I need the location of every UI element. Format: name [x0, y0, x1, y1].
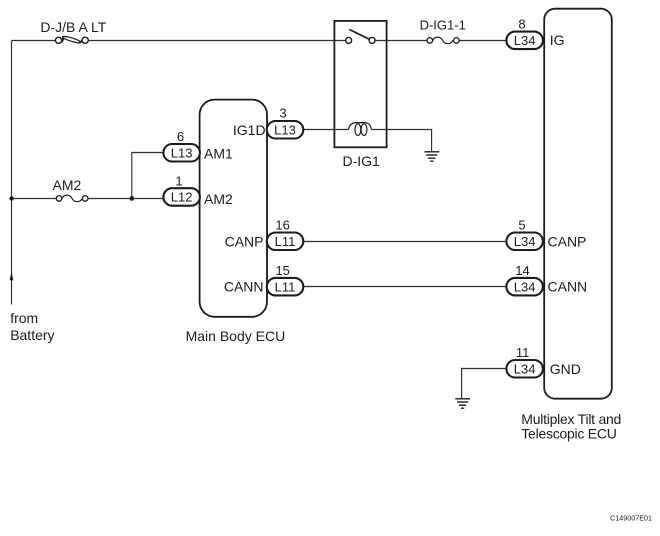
- svg-text:1: 1: [175, 173, 182, 188]
- wire: fuse D-IG1-1 to IG pin: [459, 40, 506, 42]
- wire: IG1D pin to relay coil: [303, 129, 348, 131]
- connector pin L13 IG1D (pin 3): [267, 121, 304, 139]
- svg-text:L34: L34: [514, 234, 536, 249]
- svg-text:6: 6: [177, 129, 184, 144]
- relay switch contact: [346, 30, 376, 44]
- svg-text:AM2: AM2: [53, 177, 82, 193]
- wire: relay switch to fuse D-IG1-1: [375, 40, 427, 42]
- svg-text:L11: L11: [275, 279, 296, 294]
- pin number 15: [275, 263, 289, 278]
- svg-text:D-IG1-1: D-IG1-1: [420, 17, 466, 32]
- svg-text:16: 16: [275, 218, 289, 233]
- junction node: battery riser / AM2 row: [9, 196, 13, 200]
- pin name AM2: [204, 191, 233, 207]
- svg-text:L34: L34: [514, 279, 536, 294]
- svg-text:CANN: CANN: [224, 279, 264, 295]
- svg-text:Multiplex Tilt and: Multiplex Tilt and: [521, 411, 621, 427]
- svg-text:L13: L13: [171, 145, 193, 160]
- connector pin L13 AM1 (pin 6): [163, 144, 200, 162]
- svg-text:L34: L34: [514, 361, 536, 376]
- pin name CANP (multiplex ECU): [548, 233, 587, 249]
- pin number 14: [515, 263, 529, 278]
- svg-text:IG: IG: [550, 32, 565, 48]
- pin name IG: [550, 32, 565, 48]
- pin name CANN (multiplex ECU): [548, 279, 588, 295]
- pin name CANP (main ECU): [225, 233, 264, 249]
- svg-text:C149007E01: C149007E01: [610, 514, 652, 523]
- junction node: AM1/AM2 branch: [129, 196, 134, 201]
- svg-text:IG1D: IG1D: [233, 122, 266, 138]
- label D-IG1: [343, 153, 381, 169]
- svg-text:GND: GND: [550, 361, 581, 377]
- connector pin L11 CANN (pin 15): [267, 278, 304, 296]
- svg-text:D-IG1: D-IG1: [343, 153, 381, 169]
- label AM2 (fuse): [53, 177, 82, 193]
- svg-text:L11: L11: [275, 234, 296, 249]
- arrow: from Battery (pointing up): [10, 272, 14, 280]
- svg-text:15: 15: [275, 263, 289, 278]
- wire: GND pin to ground: [462, 369, 507, 399]
- pin name CANN (main ECU): [224, 279, 264, 295]
- wire: relay coil to ground: [372, 130, 432, 152]
- wire: AM2 row left of fuse: [12, 198, 57, 200]
- svg-text:L12: L12: [171, 190, 193, 205]
- label D-J/B A LT: [40, 19, 106, 35]
- relay D-IG1 box: [334, 21, 386, 147]
- wire: left vertical battery riser: [11, 41, 13, 305]
- svg-text:11: 11: [516, 345, 530, 360]
- connector pin L34 IG (pin 8): [506, 32, 543, 49]
- wire: AM2 fuse to AM2 pin: [88, 198, 164, 200]
- svg-text:Battery: Battery: [10, 327, 54, 343]
- svg-text:Main Body ECU: Main Body ECU: [186, 328, 286, 344]
- label from Battery: [10, 310, 54, 343]
- wire: branch junction up to AM1 pin: [132, 153, 164, 199]
- svg-text:L13: L13: [274, 122, 296, 137]
- svg-text:8: 8: [518, 16, 525, 31]
- label Main Body ECU: [186, 328, 286, 344]
- svg-text:CANN: CANN: [548, 279, 588, 295]
- ground (relay coil): [424, 152, 439, 161]
- ground (multiplex ECU GND): [455, 399, 470, 408]
- svg-text:D-J/B A LT: D-J/B A LT: [40, 19, 106, 35]
- connector pin L11 CANP (pin 16): [267, 233, 304, 251]
- svg-text:AM1: AM1: [204, 146, 233, 162]
- fusible link D-J/B A LT: [55, 35, 88, 44]
- figure code C149007E01: [610, 514, 652, 523]
- wire: battery feed top horizontal left of fusible link: [12, 40, 56, 42]
- label Multiplex Tilt and Telescopic ECU: [521, 411, 621, 442]
- svg-text:AM2: AM2: [204, 191, 233, 207]
- svg-text:CANP: CANP: [548, 233, 587, 249]
- connector pin L34 GND (pin 11): [506, 360, 543, 378]
- pin number 16: [275, 218, 289, 233]
- pin name GND: [550, 361, 581, 377]
- pin number 8: [518, 16, 525, 31]
- pin name IG1D: [233, 122, 266, 138]
- svg-text:5: 5: [518, 218, 525, 233]
- svg-text:3: 3: [279, 106, 286, 121]
- wire: CANP bus: [302, 241, 507, 243]
- relay coil: [348, 123, 371, 136]
- fuse D-IG1-1: [427, 37, 459, 44]
- svg-text:from: from: [10, 310, 38, 326]
- pin number 3: [279, 106, 286, 121]
- svg-text:14: 14: [515, 263, 529, 278]
- label D-IG1-1: [420, 17, 466, 32]
- pin number 5: [518, 218, 525, 233]
- wire: top horizontal from fusible link to relay switch: [88, 40, 346, 42]
- svg-text:CANP: CANP: [225, 233, 264, 249]
- pin number 1: [175, 173, 182, 188]
- ECU box: Multiplex Tilt and Telescopic ECU: [544, 9, 612, 399]
- pin number 11: [516, 345, 530, 360]
- svg-text:Telescopic ECU: Telescopic ECU: [521, 426, 616, 442]
- pin number 6: [177, 129, 184, 144]
- connector pin L12 AM2 (pin 1): [163, 188, 200, 206]
- connector pin L34 CANN (pin 14): [506, 278, 543, 296]
- pin name AM1: [204, 146, 233, 162]
- svg-text:L34: L34: [514, 33, 536, 48]
- ECU box: Main Body ECU: [200, 100, 267, 317]
- connector pin L34 CANP (pin 5): [506, 233, 543, 251]
- fuse AM2: [56, 195, 88, 202]
- wire: CANN bus: [302, 286, 507, 288]
